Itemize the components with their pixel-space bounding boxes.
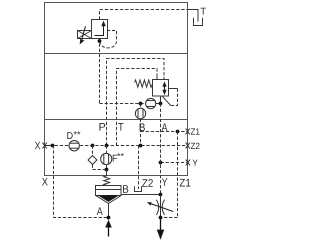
label Z2 right: [191, 143, 200, 149]
label T top: [201, 8, 206, 15]
Z1 pilot line horizontal: [141, 131, 188, 133]
pilot line T branch: [117, 69, 158, 146]
junction dot B-Z2: [139, 144, 143, 148]
pilot relief valve V1 body: [92, 20, 108, 39]
port plug mark X: [43, 143, 47, 149]
pilot stub dashes above V2: [157, 77, 164, 80]
label Y bottom: [162, 178, 167, 186]
junction dot F branch top: [105, 144, 109, 148]
orifice D circle: [69, 141, 79, 151]
check diamond branch lines: [93, 146, 107, 170]
housing divider line 1: [45, 53, 188, 55]
junction dot cross-line left: [139, 102, 143, 106]
housing frame outer box: [45, 3, 188, 176]
Y pilot line horizontal: [161, 162, 188, 164]
X port stub: [47, 145, 53, 147]
label Y right: [193, 160, 198, 166]
cartridge spring: [104, 170, 110, 186]
port plug mark Z2: [186, 143, 190, 149]
throttle adjust arrow: [150, 203, 173, 211]
B port line: [121, 194, 161, 196]
label X left: [35, 142, 40, 150]
V1 drain pilot line to tank: [100, 10, 188, 20]
throttle valve: [156, 195, 164, 218]
B pilot line vertical: [139, 104, 141, 190]
junction dot F bottom: [105, 168, 109, 172]
junction dot diamond branch: [91, 144, 95, 148]
A port line: [108, 204, 110, 220]
label Z1 bottom: [180, 179, 191, 187]
junction dot B port: [159, 193, 163, 197]
pilot cross line y104: [100, 103, 161, 105]
junction dot A port: [107, 216, 111, 220]
label F stars: [117, 153, 124, 156]
label A mid: [162, 123, 168, 131]
orifice F circle: [101, 153, 112, 164]
label D: [67, 132, 72, 139]
V1 flow path arrow: [95, 26, 104, 36]
Z1 vertical pilot line: [161, 132, 178, 218]
V2 drain diagonal: [162, 96, 171, 105]
poppet seat V: [96, 196, 121, 204]
tank symbol T: [194, 18, 203, 26]
V1 adjustment arrow: [82, 26, 86, 39]
tank flow arrow: [160, 218, 162, 230]
orifice circle on cross line: [146, 98, 156, 108]
port plug mark Y: [186, 160, 190, 166]
V2 double arrow: [164, 85, 166, 92]
tank symbol Z2 bottom: [135, 186, 142, 191]
label A port: [97, 207, 103, 215]
V2 bottom stub to A line: [160, 96, 162, 104]
label B mid: [140, 123, 145, 131]
label Z2 bottom: [142, 179, 153, 187]
label D stars: [74, 131, 81, 134]
junction dot X: [51, 144, 55, 148]
junction dot cross-line right: [159, 102, 163, 106]
orifice circle on B line: [135, 108, 145, 118]
check diamond: [88, 156, 97, 165]
label B cartridge: [123, 185, 128, 193]
label X bottom: [42, 178, 48, 186]
V1 pilot loop: [100, 31, 117, 48]
housing divider line 2: [45, 119, 188, 121]
poppet cone: [98, 195, 119, 202]
V2 spring: [135, 80, 153, 87]
main cartridge poppet valve: [96, 186, 122, 196]
pilot line P branch: [107, 59, 165, 146]
label T mid: [118, 123, 123, 131]
pilot valve V2 body: [153, 80, 169, 97]
junction dot V1: [98, 39, 102, 43]
A pilot line vertical: [160, 104, 162, 195]
orifice F line: [106, 146, 108, 170]
X drain pilot line: [53, 146, 109, 218]
label P: [99, 123, 105, 131]
junction dot throttle out: [159, 216, 163, 220]
V2 right port line to Z1: [169, 88, 178, 90]
label F: [113, 155, 117, 162]
junction dot Y: [159, 161, 163, 165]
V1 bottom pilot line: [99, 39, 101, 104]
V1 spring: [78, 31, 92, 39]
port plug mark Z1: [186, 129, 190, 135]
junction dot Z1: [176, 130, 180, 134]
A flow arrow: [105, 220, 112, 228]
label Z1 right: [191, 128, 200, 134]
X-Z2 main pilot line: [45, 145, 188, 147]
